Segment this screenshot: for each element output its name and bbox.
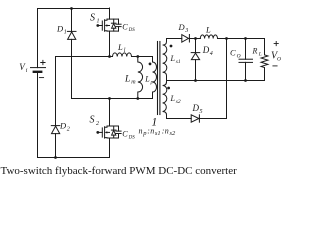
svg-text:Two-switch flyback-forward PWM: Two-switch flyback-forward PWM DC-DC con… (1, 165, 238, 177)
svg-text:i: i (26, 68, 28, 74)
svg-text:s2: s2 (176, 99, 181, 105)
svg-text:1: 1 (64, 30, 67, 36)
svg-text:2: 2 (67, 127, 70, 133)
svg-text:L: L (144, 75, 150, 84)
svg-text:L: L (124, 75, 130, 85)
svg-text:p: p (150, 80, 154, 86)
svg-text:s1: s1 (176, 59, 181, 65)
svg-text:S: S (90, 13, 95, 24)
svg-text:n: n (150, 127, 154, 136)
svg-text:3: 3 (184, 28, 188, 34)
svg-text:5: 5 (200, 109, 203, 115)
svg-text:s1: s1 (155, 130, 161, 137)
svg-text:s2: s2 (170, 130, 177, 137)
svg-text:R: R (252, 47, 258, 56)
svg-text:2: 2 (96, 121, 99, 127)
svg-text:D: D (202, 45, 210, 55)
svg-text:D: D (192, 103, 200, 113)
svg-text:S: S (90, 115, 95, 126)
svg-text:L: L (258, 52, 262, 58)
svg-text:DS: DS (128, 135, 136, 140)
svg-text:DS: DS (128, 28, 136, 33)
svg-text:O: O (237, 54, 241, 60)
svg-text:m: m (131, 80, 136, 86)
svg-text:4: 4 (210, 50, 213, 57)
svg-text:n: n (139, 127, 143, 136)
svg-text:1: 1 (97, 19, 100, 25)
svg-text:L: L (205, 25, 211, 35)
svg-text:L: L (117, 42, 123, 52)
svg-text:C: C (122, 130, 128, 139)
svg-text:L: L (170, 54, 176, 63)
svg-text:C: C (122, 22, 128, 31)
svg-text:C: C (230, 48, 236, 58)
svg-text:L: L (170, 94, 176, 103)
svg-text:O: O (277, 57, 281, 63)
svg-text:n: n (165, 127, 169, 136)
